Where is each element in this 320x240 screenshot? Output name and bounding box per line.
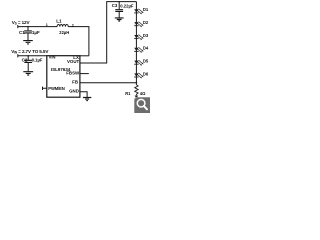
LED D3 xyxy=(134,33,149,40)
svg-text:D4: D4 xyxy=(143,46,149,51)
ground below C3 xyxy=(115,18,124,21)
wire LED chain xyxy=(135,2,137,85)
svg-text:L1: L1 xyxy=(56,18,62,23)
svg-text:2: 2 xyxy=(72,24,74,28)
svg-text:C2: C2 xyxy=(22,57,28,62)
svg-text:VOUT: VOUT xyxy=(67,59,80,64)
svg-text:FBSW: FBSW xyxy=(66,71,80,76)
wire LX pin xyxy=(80,55,89,57)
wire L1 to LX drop xyxy=(68,27,89,56)
op-amp U1 ISL97634 box xyxy=(47,56,80,97)
LED D5 xyxy=(134,59,149,66)
svg-text:22µH: 22µH xyxy=(59,30,69,35)
svg-text:VIN = 2.7V TO 5.5V: VIN = 2.7V TO 5.5V xyxy=(11,49,49,55)
LED D2 xyxy=(134,20,149,27)
svg-text:R1: R1 xyxy=(125,91,131,96)
svg-text:1µF: 1µF xyxy=(32,30,40,35)
wire FB xyxy=(80,82,136,84)
LED D1 xyxy=(134,7,149,14)
wire VOUT to top rail xyxy=(80,2,136,63)
svg-text:D3: D3 xyxy=(143,33,149,38)
ground below GND pin xyxy=(83,98,91,101)
svg-text:D1: D1 xyxy=(143,7,149,12)
ground below C2 xyxy=(23,72,33,75)
svg-text:D5: D5 xyxy=(143,59,149,64)
wire FBSW stub xyxy=(80,73,89,75)
svg-text:D2: D2 xyxy=(143,20,149,25)
svg-text:4Ω: 4Ω xyxy=(140,91,146,96)
wire GND xyxy=(80,92,87,97)
wire VIN rail xyxy=(18,55,47,57)
resistor R1 xyxy=(135,85,138,96)
svg-text:0.22µF: 0.22µF xyxy=(120,4,134,9)
svg-text:VIN: VIN xyxy=(49,54,56,59)
junction dot C1 xyxy=(27,26,29,28)
junction dot C3 xyxy=(118,1,120,3)
ground below C1 xyxy=(23,41,33,44)
svg-text:VS = 12V: VS = 12V xyxy=(12,20,31,26)
svg-text:C1: C1 xyxy=(19,30,25,35)
capacitor C2 xyxy=(27,56,29,60)
junction dot C2 xyxy=(27,55,29,57)
node VIN terminal tick xyxy=(17,54,19,57)
svg-text:PWM/EN: PWM/EN xyxy=(48,86,64,91)
svg-text:D6: D6 xyxy=(143,71,149,76)
svg-text:C3: C3 xyxy=(112,3,118,8)
wire VS rail xyxy=(18,26,57,28)
svg-text:0.1µF: 0.1µF xyxy=(32,57,43,62)
wire PWM/EN stub and tick xyxy=(43,87,47,90)
capacitor C3 xyxy=(118,2,120,10)
junction dot FB xyxy=(136,82,138,84)
svg-text:GND: GND xyxy=(69,89,79,94)
inductor L1 coil xyxy=(57,25,68,27)
magnifier zoom overlay button xyxy=(134,97,152,115)
svg-text:FB: FB xyxy=(72,79,78,84)
wire arrow below R1 xyxy=(135,96,139,99)
capacitor C1 xyxy=(27,27,29,31)
node VS terminal tick xyxy=(17,25,19,28)
LED D6 xyxy=(134,71,149,78)
svg-text:1: 1 xyxy=(46,23,48,27)
LED D4 xyxy=(134,46,149,53)
